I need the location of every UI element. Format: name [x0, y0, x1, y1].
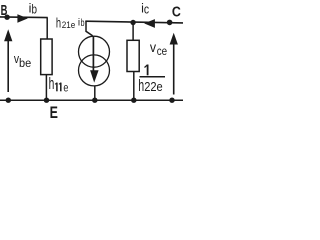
svg-text:be: be	[19, 58, 31, 70]
svg-text:b: b	[81, 18, 85, 29]
resistor h11e body	[41, 39, 52, 75]
wire bottom rail E	[0, 99, 183, 101]
current arrow ib on top rail	[17, 14, 28, 23]
current source h21e*ib top circle	[79, 36, 110, 67]
node dot at C junction	[167, 20, 173, 26]
node dot h11e bottom junction	[44, 98, 49, 103]
resistor 1/h22e body	[127, 40, 139, 71]
wire current source to bottom rail	[94, 86, 96, 100]
current source arrow head	[90, 70, 99, 82]
wire h22e branch from top rail	[132, 23, 134, 41]
current arrow ic on top rail	[144, 19, 155, 28]
voltage arrow vce head	[170, 33, 178, 45]
node dot h22e top junction	[130, 20, 135, 25]
svg-text:22e: 22e	[144, 80, 163, 94]
voltage arrow vbe shaft	[7, 41, 9, 93]
svg-text:v: v	[150, 40, 156, 55]
svg-text:h: h	[56, 15, 61, 31]
svg-text:e: e	[63, 81, 68, 95]
svg-text:ce: ce	[157, 46, 167, 58]
label h11e	[49, 75, 69, 94]
node dot current source bottom junction	[92, 98, 97, 103]
node dot bottom-right	[169, 98, 174, 103]
wire top-right rail from corner to C edge	[85, 21, 183, 23]
svg-text:b: b	[32, 3, 38, 17]
label h21e ib for current source	[56, 15, 85, 31]
node dot bottom-left	[6, 98, 11, 103]
wire corner down toward current source	[86, 21, 93, 35]
wire 1/h22e resistor to bottom rail	[133, 72, 135, 101]
svg-text:E: E	[50, 103, 58, 122]
node dot h22e bottom junction	[131, 98, 136, 103]
svg-text:c: c	[144, 3, 149, 17]
wire h11e resistor down to bottom rail	[45, 75, 47, 100]
voltage arrow vce shaft	[173, 44, 175, 95]
wire corner down to h11e resistor	[46, 18, 48, 40]
voltage arrow vbe head	[4, 29, 12, 41]
label 1/h22e fraction	[138, 65, 165, 95]
label vce	[150, 40, 167, 58]
wire top-left rail B to corner	[0, 16, 48, 19]
node dot at B junction	[4, 15, 9, 20]
current source arrow shaft	[92, 36, 94, 72]
svg-text:C: C	[172, 5, 181, 21]
svg-text:21e: 21e	[62, 20, 76, 30]
svg-text:h: h	[49, 75, 55, 93]
current source bottom circle	[79, 55, 110, 86]
label vbe	[14, 52, 31, 70]
